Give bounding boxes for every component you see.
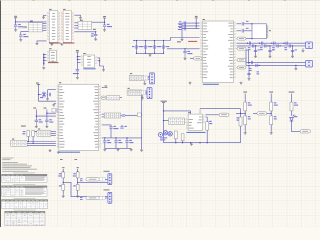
capacitor C10	[122, 115, 125, 116]
junction	[163, 110, 164, 111]
wire U7 to R7	[205, 117, 207, 122]
power bar VDD_USB	[162, 102, 165, 104]
wire cap rail top	[134, 40, 171, 42]
label C6	[187, 51, 192, 54]
labels under Q1 Q2	[160, 137, 167, 140]
wire U2 to RN2 row1	[74, 22, 78, 24]
wire into VBUS divider	[236, 112, 245, 114]
ground of chain VBUS	[244, 131, 247, 134]
wire R to lower rail	[246, 50, 249, 64]
label C3	[107, 24, 112, 27]
junction	[182, 142, 183, 143]
ground right bus	[140, 149, 143, 152]
wire C11 down	[110, 128, 112, 138]
wire to C12	[121, 125, 123, 127]
junction	[145, 53, 146, 54]
wire U6 to RN5	[102, 113, 105, 115]
table 2 notes title	[13, 183, 35, 186]
ground below U6	[57, 151, 60, 154]
capacitor C9	[45, 120, 48, 121]
IC U6 MCU body	[59, 84, 99, 150]
LED D1	[158, 133, 162, 137]
resistor at LED_5V top	[290, 102, 293, 111]
cap value	[139, 46, 143, 47]
net label above connector	[104, 170, 110, 173]
wire chain bottom	[244, 125, 246, 132]
resistor network RN3	[107, 96, 120, 100]
junction	[292, 45, 293, 46]
capacitor at U5 left y29	[184, 27, 185, 30]
resistor at TH1 bottom	[62, 185, 65, 191]
notes line	[2, 170, 28, 173]
cap label at U5 left	[178, 27, 182, 30]
pin header J6	[130, 75, 144, 80]
wire to ground	[295, 65, 297, 67]
ground of ESD2	[248, 78, 251, 81]
series capacitor on D- at 278	[277, 44, 278, 47]
wire VDD to pin rows	[195, 18, 197, 29]
series capacitor on D+ at 262	[262, 42, 263, 45]
resistor network RN4	[130, 90, 142, 94]
pin numbers of U1	[47, 12, 60, 39]
notes paragraph	[2, 166, 37, 170]
wire crystal gnd	[54, 103, 56, 105]
table 4 revisions	[5, 211, 45, 225]
junction	[283, 43, 284, 44]
wire J5 to U6	[51, 134, 56, 136]
ground below C3	[103, 27, 106, 31]
cap designator	[141, 46, 144, 47]
ground of cap rail	[149, 53, 152, 56]
ESD diode	[268, 50, 271, 51]
resistor R5	[174, 131, 177, 139]
junction	[271, 113, 272, 114]
capacitor at U5 left y26	[184, 24, 185, 27]
wire chain bottom	[62, 190, 64, 195]
table 1 notes	[2, 174, 48, 182]
wire chain mid	[244, 111, 246, 116]
pin names of U5	[203, 23, 233, 78]
capacitor	[242, 29, 243, 32]
designator U2	[63, 8, 65, 11]
wire J5 to U6	[51, 131, 56, 133]
wire into U5 pin	[182, 25, 200, 27]
net label MODE	[177, 40, 181, 43]
ground below J5	[49, 149, 52, 152]
wire into U5 pin	[182, 22, 200, 24]
wire chain mid	[270, 111, 272, 116]
capacitor C5	[76, 70, 79, 71]
table 3 pinout title	[14, 197, 36, 200]
wire RN5 to C10	[121, 115, 122, 117]
wire cap down	[115, 142, 117, 148]
junction	[32, 143, 33, 144]
ground of ESD	[291, 55, 294, 58]
cap labels USB1	[260, 47, 263, 50]
capacitor C11	[109, 127, 112, 128]
ground below J6	[143, 82, 146, 85]
wire to U6 OSC_IN	[47, 112, 56, 114]
connector pin column J1	[43, 54, 44, 66]
power flag VDD	[104, 86, 107, 88]
ground at U1 pin1	[42, 16, 45, 19]
wire R8 to rail	[240, 126, 242, 143]
label U6 part	[59, 152, 80, 153]
net label VDD5	[269, 91, 273, 94]
net label VBUS	[243, 91, 247, 94]
power bar	[37, 83, 40, 85]
IC U4 op-amp body	[83, 55, 94, 67]
ESD label	[295, 48, 298, 51]
crystal Y2	[52, 109, 58, 113]
wire R2 down	[27, 137, 29, 142]
junction	[269, 45, 270, 46]
power flag VDD	[103, 16, 106, 18]
series capacitor on D+ at 250	[249, 42, 250, 45]
series capacitor on D+ at 274	[274, 42, 275, 45]
wire stub	[236, 48, 239, 50]
table 4 revisions title	[14, 209, 36, 212]
connector row A	[108, 174, 112, 185]
junction	[175, 142, 176, 143]
wire R6 down	[182, 141, 184, 143]
wire cap rail bottom	[137, 52, 164, 54]
ground above crystal	[52, 104, 55, 107]
crystal Y3 body	[252, 24, 266, 39]
junction	[77, 56, 78, 57]
ground below-right of U5	[240, 82, 243, 85]
wire to cap	[126, 138, 128, 141]
thermistor at TH1	[62, 172, 65, 178]
ground of ESD	[254, 55, 257, 58]
capacitor C13	[219, 113, 229, 116]
junction	[77, 59, 78, 60]
capacitor at U5 left y23	[184, 21, 185, 24]
ground below J1	[42, 67, 45, 70]
wire down to C4	[95, 32, 97, 35]
transistor Q2	[168, 132, 172, 136]
resistor at VBUS bottom	[244, 116, 247, 125]
cap designator	[132, 46, 135, 47]
ground in cap row	[117, 148, 120, 151]
wire to U6 pin row2	[48, 89, 56, 91]
pin numbers of U5	[200, 22, 235, 77]
cap label at U5 left	[178, 24, 182, 27]
pin header J5	[37, 131, 51, 137]
junction	[255, 45, 256, 46]
wire stub	[236, 59, 239, 61]
wire to U3	[44, 59, 47, 61]
junction	[104, 22, 105, 23]
capacitor C8	[35, 120, 38, 121]
wire chain bottom	[270, 125, 272, 132]
resistor R row A	[86, 178, 99, 181]
resistor network RN2	[78, 22, 92, 30]
wire J5 to U6	[51, 133, 56, 135]
wire through cap	[154, 41, 156, 54]
notes text line 3-4	[2, 162, 27, 164]
wire chain bottom	[77, 190, 79, 195]
resistor label	[294, 102, 298, 105]
wire through cap	[163, 41, 165, 54]
ruler ticks top	[33, 0, 286, 2]
wire crystal left	[35, 110, 37, 121]
wire down to C2	[20, 32, 22, 35]
ground in cap row	[103, 148, 106, 151]
wire USB1 D-	[237, 45, 306, 47]
power flag VDD	[76, 50, 79, 52]
wire cap down	[126, 142, 128, 148]
wire LED to sense resistor	[292, 121, 301, 131]
designator U4	[83, 52, 85, 55]
pins of U4	[81, 57, 96, 66]
cap label at U5 left	[178, 21, 182, 24]
wire to cap	[104, 138, 106, 141]
wire U4 out to ground	[98, 58, 104, 69]
designator J7	[128, 87, 130, 90]
ground below-left of U1	[36, 42, 39, 45]
resistor label	[58, 173, 61, 176]
wire chain mid	[62, 178, 64, 185]
cap label	[246, 27, 249, 30]
ground below C6	[184, 53, 187, 60]
pins of U2	[61, 13, 73, 39]
ESD label	[272, 48, 275, 51]
junction	[207, 142, 208, 143]
wire USB2 D+	[246, 62, 306, 64]
pins of U5	[201, 23, 236, 78]
junction	[255, 45, 256, 46]
pins of U1	[47, 13, 60, 39]
ground bottom rail	[190, 143, 193, 146]
resistor at VDD5 bottom	[270, 116, 273, 125]
resistor label	[73, 185, 76, 186]
resistor R6	[181, 134, 184, 141]
ESD diode	[291, 50, 294, 51]
wire chain mid	[77, 178, 79, 185]
resistor at VBUS top	[244, 102, 247, 111]
capacitor at 127	[125, 141, 128, 142]
label C8	[39, 119, 43, 122]
power flag VDD	[14, 16, 17, 18]
ESD label	[258, 48, 261, 51]
resistor label	[248, 116, 251, 119]
junction	[190, 142, 191, 143]
wire ESD2 to ground	[248, 65, 250, 77]
pin names of U1	[52, 13, 56, 40]
wire to RN6	[164, 120, 169, 122]
ground of ESD	[269, 55, 272, 58]
pin header J7	[127, 90, 141, 95]
resistor network RN1	[28, 23, 42, 32]
wire cap to crystal	[244, 30, 252, 32]
junction	[154, 40, 155, 41]
pin names of U3	[51, 52, 55, 61]
IC U3 sensor body	[49, 50, 56, 61]
wire U6 to RN5	[102, 116, 105, 118]
ground near J3	[294, 67, 297, 70]
label Fiducial (red)	[188, 41, 197, 42]
wire U4 pin	[98, 60, 100, 62]
ground right of U2	[79, 17, 82, 20]
wire U7 to C13	[205, 114, 219, 116]
wire U2 to RN2 row2	[74, 24, 78, 26]
terminal cells row A	[99, 178, 105, 181]
capacitor C4	[94, 34, 97, 35]
junction	[115, 137, 116, 138]
designator J6	[130, 72, 132, 75]
wire ESD to ground	[292, 46, 294, 55]
junction	[46, 113, 47, 114]
ground below C4	[94, 36, 97, 40]
capacitor C2	[19, 35, 22, 36]
label C1	[18, 24, 23, 27]
wire J6 to CON1	[148, 77, 150, 79]
junction	[63, 182, 64, 183]
cap designator	[150, 46, 153, 47]
ground of chain TH2	[76, 195, 79, 198]
junction	[184, 48, 185, 49]
IC U7 load switch body	[188, 114, 202, 130]
LED label	[295, 116, 298, 117]
ferrite bead FB1	[42, 92, 46, 98]
resistor R3	[32, 131, 35, 137]
wire VDD_USB down	[163, 103, 165, 143]
junction	[104, 137, 105, 138]
junction	[15, 21, 16, 22]
net label VBUS	[23, 26, 27, 29]
series capacitor on D- at 253	[253, 44, 254, 47]
label U2 part	[63, 43, 74, 44]
wire RN1 to U1 row2	[43, 25, 47, 27]
wire VDD flag down	[104, 18, 106, 25]
wire to ground	[144, 81, 146, 82]
label C4	[91, 33, 94, 36]
resistor R at y49	[237, 47, 246, 50]
crystal Y2 mark	[55, 109, 57, 111]
label C5	[73, 73, 79, 74]
wire J4 to U6	[27, 142, 56, 144]
ground below C2	[19, 37, 22, 41]
wire J4 to U6	[27, 141, 56, 143]
connector J3	[306, 61, 313, 68]
wire U5 to cap	[237, 30, 242, 32]
junction	[99, 60, 100, 61]
designator RN1	[30, 20, 33, 23]
cap value	[157, 46, 161, 47]
resistor R7	[206, 122, 209, 130]
junction	[295, 65, 296, 66]
cap value	[166, 46, 170, 47]
net label PD1	[44, 107, 47, 110]
wire to U4 pin	[77, 61, 80, 63]
IC U5 USB hub body	[203, 21, 234, 83]
pin names of U4	[87, 56, 91, 65]
designator U1	[49, 8, 51, 11]
ground of chain TH1	[62, 195, 65, 198]
resistor label	[73, 173, 76, 176]
wire down	[47, 90, 49, 98]
wire stub	[43, 14, 45, 17]
wire RN6 to U7	[184, 119, 187, 121]
wire J7 to CON2	[146, 93, 148, 95]
wire to U4 pin	[77, 56, 80, 58]
label Y3	[269, 29, 271, 32]
junction R8 column	[240, 113, 241, 114]
label U5 part	[203, 84, 219, 85]
junction at crystal bottom-left	[251, 38, 252, 39]
wire TH1 tap to J9	[63, 182, 108, 196]
junction	[136, 40, 137, 41]
resistor R9	[257, 112, 267, 115]
label R2	[22, 131, 25, 134]
junction	[292, 45, 293, 46]
label U7 part	[187, 132, 206, 133]
junction	[280, 45, 281, 46]
polarity mark	[77, 171, 78, 172]
junction	[271, 43, 272, 44]
junction	[36, 115, 37, 116]
coil of Y3	[266, 26, 268, 38]
junction	[247, 43, 248, 44]
ground below C5	[76, 71, 79, 79]
capacitor C3	[103, 25, 106, 26]
label R3	[35, 131, 38, 132]
connector row B	[108, 192, 112, 203]
designator J5	[38, 128, 40, 131]
capacitor	[242, 22, 243, 25]
net label above TH2	[75, 158, 78, 161]
resistor at TH2 bottom	[76, 185, 79, 191]
wire USB2 D-	[246, 64, 306, 66]
net label TH1	[62, 166, 65, 169]
wire stub	[236, 38, 239, 40]
notes text line 1-2	[2, 158, 13, 160]
connector CON1	[150, 73, 155, 84]
net label VDD_USB	[161, 100, 167, 103]
wire to R1	[190, 57, 194, 59]
wire crystal right	[46, 110, 48, 121]
junction	[258, 65, 259, 66]
junction	[267, 45, 268, 46]
series capacitor USB2 D+	[251, 61, 252, 64]
junction	[249, 62, 250, 63]
table 2 notes	[2, 186, 48, 197]
terminal cells J6	[144, 76, 148, 80]
junction	[77, 182, 78, 183]
junction	[145, 40, 146, 41]
wire net to U5	[167, 48, 200, 50]
pin numbers of U7	[186, 116, 205, 128]
cap labels USB1	[248, 47, 251, 50]
cap label	[129, 140, 133, 143]
wire to U3	[44, 56, 47, 58]
ESD diode 2	[247, 73, 250, 74]
resistor R at y60	[237, 59, 246, 62]
cap designator	[159, 46, 162, 47]
junction	[163, 40, 164, 41]
junction	[126, 137, 127, 138]
wire R3 down	[32, 137, 34, 144]
wire USB1 D+	[237, 42, 306, 44]
net label above TH1	[60, 158, 63, 161]
wire U5 to cap	[237, 23, 242, 25]
wire down to R8	[240, 109, 242, 117]
junction	[196, 25, 197, 26]
wire chain top	[77, 169, 79, 172]
wire U2 to RN2 row3	[74, 27, 78, 29]
connector CON2	[147, 88, 152, 99]
